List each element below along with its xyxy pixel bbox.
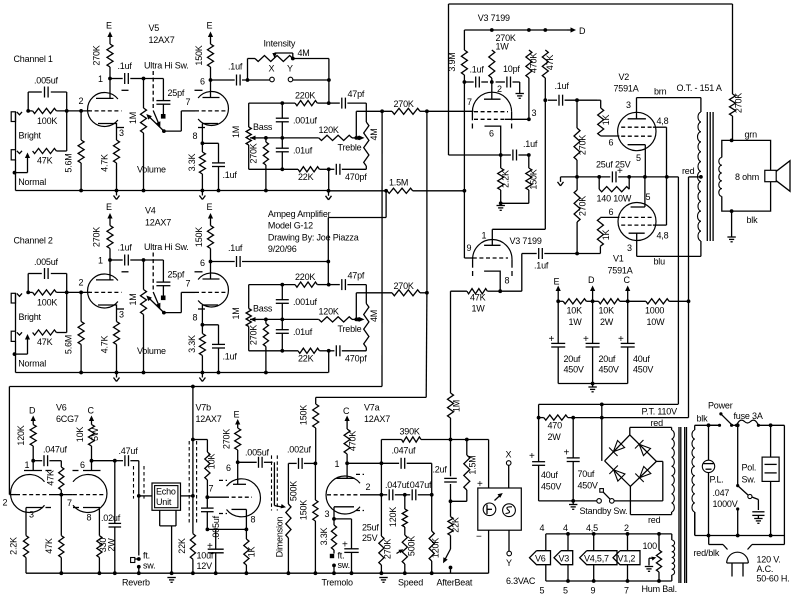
label grn [745,130,758,140]
svg-text:25uf 25V: 25uf 25V [596,160,631,170]
wire fb row 155 [449,154,501,156]
svg-text:1W: 1W [472,304,486,314]
label pin 5 V6 [540,586,545,595]
junction V7b cath row right [245,528,249,532]
triode V6a [11,475,45,513]
label 4,8 V2 [657,116,669,126]
label 6.3VAC [506,576,536,586]
junction ch1 bus .1uf [217,189,221,193]
junction ch1 grid node [79,109,83,113]
svg-text:470: 470 [548,421,563,431]
label 120 V. [757,555,781,565]
bass wiper ch1 [250,136,266,141]
svg-text:.1uf: .1uf [534,261,549,271]
junction mid 270K ch2 [264,318,268,322]
label Ultra Hi Sw. ch2 [144,242,189,252]
svg-text:270K: 270K [578,196,588,216]
capacitor .047uf osc3 [412,489,416,500]
ground ch2 3.3K [199,373,205,382]
svg-text:2W: 2W [548,432,562,442]
junction bus dimension [287,571,291,575]
junction cathode V3b [498,289,502,293]
capacitor 25uf 25V [612,171,616,182]
tube V6a gap dashes [46,471,52,508]
capacitor 47pf ch1 [329,98,367,109]
svg-text:grn: grn [745,130,758,140]
cathode V7b [232,509,247,529]
wire primary top [695,424,720,426]
label 20uf 450V E [564,354,584,375]
filter cap box [762,425,779,535]
resistor 150K trem lower [313,463,318,573]
label P.T. 110V [642,407,678,417]
svg-text:4,8: 4,8 [657,231,669,241]
junction bus 330 [98,571,102,575]
label .1uf ch1 cathode [223,170,238,180]
ground ch1 4.7K [114,191,120,200]
supply C arrow [624,275,631,301]
label pin 4 V3 [563,523,568,533]
resistor 47K V6b grid [59,495,64,574]
svg-text:Volume: Volume [137,346,166,356]
label 150K V4b [194,227,204,247]
junction supply gnd [591,382,595,386]
junction ch1 bus 4.7K [115,189,119,193]
pin 2 label V6a [3,498,8,508]
svg-text:C: C [624,275,631,285]
label 25uf 25V [596,160,631,170]
svg-text:V6: V6 [535,554,546,564]
PT 6.3V winding [672,534,675,581]
junction ch2 bus 270K [264,371,268,375]
echo unit box [152,483,181,510]
triode V7b [227,479,261,517]
svg-text:470K: 470K [529,53,539,73]
junction mid 120K right ch2 [354,318,358,322]
tube V3a bottom dashes [472,124,511,129]
label 10uf [197,551,214,561]
junction 470 left [537,416,541,420]
svg-text:140 10W: 140 10W [597,194,632,204]
svg-text:1K: 1K [601,114,611,125]
svg-text:.047uf: .047uf [392,446,417,456]
treble wiper ch1 [359,136,365,141]
junction ch2 bus 4.7K [115,371,119,375]
wire psu gnd row [539,500,597,502]
wire jack drop [488,440,490,489]
label 270K ch2 mix [394,281,414,291]
junction tone top right ch1 [327,101,331,105]
wire ch2 47K right [56,292,66,332]
wire wiper to grid ch1 [164,111,181,131]
label 47K ch1 input [37,156,53,166]
OT core [707,112,713,241]
svg-text:Reverb: Reverb [122,578,150,588]
junction B+ lower bridge [600,416,604,420]
resistor 5.6M ch2 [78,292,84,372]
capacitor 25pf ch2 [156,260,170,296]
resistor 270K ch2 mix [356,290,427,320]
label 25uf V7a [362,523,379,533]
label 4M ch1 [369,128,379,140]
svg-text:70uf: 70uf [578,469,595,479]
ground ch1 3.3K [199,191,205,200]
treble wiper ch2 [359,317,365,322]
svg-text:X: X [269,64,275,74]
pin 7 label V4b [186,279,191,289]
label 47K V6b grid [44,538,54,554]
capacitor 25uf 25V V7a [334,519,359,573]
resistor 1.5M [387,188,413,193]
label 10K V7b [207,454,217,470]
label 5.6M ch1 [64,153,74,172]
wire tone top row ch2 [249,284,329,286]
junction bus D 47K [543,28,547,32]
pin 7 label V6b [67,498,72,508]
svg-text:100K: 100K [37,116,57,126]
label Tremolo [322,578,353,588]
cathode V1 [631,177,645,207]
svg-text:270K: 270K [578,135,588,155]
resistor 3.3K ch1 [199,143,205,190]
OT primary [698,98,701,257]
junction 1.5M bus [327,189,331,193]
svg-text:+: + [477,479,483,490]
svg-text:8 ohm: 8 ohm [735,172,759,182]
label 470pf ch1 [345,172,367,182]
ground supply [588,384,596,392]
resistor 2.2K V6a [23,536,28,574]
label V4 [145,206,156,216]
label 7591A V1 [608,266,633,276]
svg-text:270K: 270K [394,281,414,291]
resistor 120K osc [402,495,407,527]
junction ch2 bus 5.6M [79,371,83,375]
rail 120K afterbeat [429,495,434,573]
wire tone gnd drop ch1 [328,169,330,190]
junction bus .02uf [113,571,117,575]
resistor 100K ch1 [33,108,57,113]
pin 5 label V1 [646,192,651,202]
svg-text:.047uf: .047uf [385,480,410,490]
svg-text:1M: 1M [452,400,462,412]
svg-text:blk: blk [697,414,709,424]
label 4.7K ch1 [100,154,110,172]
pin 3 label V2 [626,100,631,110]
wire tone bottom row ch1 [249,168,367,170]
svg-text:12AX7: 12AX7 [149,35,175,45]
wire tone mid row ch1 [266,137,319,139]
label plus V7a cap [342,540,348,551]
svg-text:3.3K: 3.3K [187,153,197,171]
svg-text:1W: 1W [569,317,583,327]
svg-text:47pf: 47pf [348,89,365,99]
svg-text:22K: 22K [451,517,461,533]
pin 6 label V2 [609,138,614,148]
ground echo [167,578,175,583]
label 1M volume ch2 [128,293,138,305]
svg-text:red/blk: red/blk [694,548,720,558]
screen V3a [474,118,529,120]
wire tone gnd drop ch2 [328,351,330,373]
capacitor .005uf ch1 [45,87,49,98]
label 9/20/96 [268,244,297,254]
svg-text:AfterBeat: AfterBeat [437,578,473,588]
label plus C cap [618,334,624,345]
capacitor .1uf V3a out [501,150,529,161]
pin 6 label V5b [200,77,205,87]
label X intensity [269,64,275,74]
pin 8 label V4b [193,313,198,323]
jack Y lower [506,551,512,568]
pin 5 label V2 [636,153,641,163]
label 10K 1W [567,306,583,328]
label 7591A V2 [614,84,639,94]
wire B to 150K [316,396,427,398]
label Volume ch2 [137,346,166,356]
svg-text:+: + [342,540,348,551]
svg-text:Standby Sw.: Standby Sw. [580,506,628,516]
switch Ultra Hi dashed ch2 [152,253,154,292]
svg-text:.001uf: .001uf [293,297,318,307]
junction supply E [556,299,560,303]
label 100K ch2 [37,297,57,307]
svg-text:A.C.: A.C. [757,564,774,574]
svg-text:.002uf: .002uf [287,445,312,455]
junction 1.5M right rail [463,189,467,193]
plate bar V2 [628,118,646,120]
junction tone top right ch2 [327,283,331,287]
label 3.3K ch2 [187,335,197,353]
svg-text:22K: 22K [298,172,314,182]
label 150K V5b [194,45,204,65]
label 25pf ch1 [168,88,185,98]
svg-text:47K: 47K [37,156,53,166]
rail V7b feed [192,387,194,534]
capacitor .1uf to V2 [555,81,570,106]
svg-text:1M: 1M [231,126,241,138]
wire tone mid row ch2 [266,318,319,320]
resistor 47K V3 [542,50,548,100]
label 47K V3 [545,55,555,71]
label 100K ch1 [37,116,57,126]
label Dimension [275,516,285,557]
label 270K V5a [92,45,102,65]
label E V5a [106,21,112,31]
svg-text:3: 3 [626,100,631,110]
plate bar V1 [629,232,645,234]
svg-text:Power: Power [708,401,733,411]
label 120K ch2 [319,306,339,316]
grid V3a dashed [474,111,508,113]
capacitor .47uf [115,455,139,466]
svg-text:blu: blu [654,257,666,267]
wire supply gnd bus [558,383,628,385]
capacitor 70uf 450V [567,418,580,501]
svg-text:sw.: sw. [143,561,155,571]
svg-text:10K: 10K [207,454,217,470]
label 47pf ch1 [348,89,365,99]
svg-text:2.2K: 2.2K [501,170,511,188]
junction bus 1K V7b [245,571,249,575]
svg-text:.1uf: .1uf [118,61,133,71]
label E V4a [106,202,112,212]
svg-text:120K: 120K [319,125,339,135]
label pin 9 [591,586,596,595]
junction ch2 bus .1uf [217,371,221,375]
svg-text:6.3VAC: 6.3VAC [506,576,536,586]
svg-text:Ultra Hi Sw.: Ultra Hi Sw. [144,61,189,71]
svg-text:5: 5 [540,586,545,595]
label 470 2W [548,421,563,443]
label plus jack [477,479,483,490]
label .005uf ch2 [34,257,59,267]
label 47K ch2 input [37,337,53,347]
svg-text:120K: 120K [319,306,339,316]
switch Standby [597,489,614,504]
junction 3.9M bottom [463,80,467,84]
svg-text:2: 2 [79,278,84,288]
label 25V V7a [362,533,378,543]
label E V5b [207,21,213,31]
label pin 5 V3 [563,586,568,595]
svg-text:Y: Y [506,558,512,568]
fuse 3A [735,420,785,427]
svg-text:E: E [106,202,112,212]
svg-text:+: + [529,451,535,462]
junction blk [730,209,734,213]
tube V3b bottom dashes [473,271,512,276]
svg-text:47K: 47K [545,55,555,71]
svg-text:100K: 100K [37,297,57,307]
resistor 1K V7b [244,529,249,573]
triode V3b [473,240,512,268]
resistor 10K 5W V6b plate [89,425,95,461]
triode V5a [88,92,118,126]
wire B+ row lower [539,417,689,419]
label Intensity [264,39,296,49]
label 4M ch2 [369,310,379,322]
label 10pf [503,64,520,74]
junction ch1 normal [13,171,17,175]
svg-text:V4: V4 [145,206,156,216]
junction ch2 bus volume [142,371,146,375]
label 2.2K V6a [9,537,19,555]
supply E arrow V5a [107,32,112,45]
label .1uf ch2 cathode [223,352,238,362]
junction .002uf right [314,462,318,466]
ground arrow cathode row [558,177,564,186]
svg-text:47K: 47K [44,538,54,554]
OT secondary [719,157,722,196]
rail V3b grid [463,82,465,258]
label 470K V3 [529,53,539,73]
label Ampeg Amplifier [268,209,331,219]
ground 1.5M bus [326,191,332,200]
svg-text:8: 8 [193,131,198,141]
label Bright ch2 [19,312,42,322]
switch Pol Sw [736,423,752,535]
capacitor 470pf ch2 [336,345,340,356]
label Reverb [122,578,150,588]
pin 6 label V4b [200,258,205,268]
svg-text:270K: 270K [383,539,393,559]
resistor 270K V2 [574,100,580,177]
svg-text:1: 1 [98,74,103,84]
supply D arrow [588,275,595,301]
label 100 humbal [643,541,658,551]
svg-text:3: 3 [119,310,124,320]
svg-text:E: E [207,202,213,212]
pin 1 label V7a [335,459,340,469]
shield echo send [134,466,145,499]
label V3 7199 top [478,13,510,23]
svg-text:450V: 450V [599,365,619,375]
plate V5b [203,80,220,98]
junction .2uf bottom [449,499,453,503]
label 140 10W [597,194,632,204]
resistor 470K V3 [526,50,532,119]
label Normal ch1 [18,177,46,187]
svg-text:47K: 47K [46,470,56,486]
svg-text:Dimension: Dimension [275,516,285,557]
svg-text:7591A: 7591A [608,266,633,276]
wire V7a grid drop [380,463,382,495]
svg-text:5: 5 [563,586,568,595]
resistor 150K V3 [501,155,532,203]
svg-text:.1uf: .1uf [223,352,238,362]
capacitor .1uf ch1 coupling B [237,75,241,86]
capacitor .005uf V7b out [238,457,273,468]
label Treble ch2 [338,324,362,334]
wire mains right rail [783,425,785,544]
capacitor .01uf ch1 [276,138,289,169]
svg-text:270K: 270K [249,143,259,163]
grid V6b dashed [73,494,104,496]
plate V4b [203,262,220,280]
svg-text:4.7K: 4.7K [100,154,110,172]
svg-text:6: 6 [489,129,494,139]
label .1uf V3a out [523,139,538,149]
cathode V2 [628,145,646,177]
grid V5b [181,110,228,112]
svg-text:7: 7 [624,586,629,595]
svg-text:220K: 220K [295,91,315,101]
svg-text:V1: V1 [613,254,624,264]
resistor 3.9M [461,30,467,82]
wire X to box [508,465,510,488]
tube V1 [618,203,656,241]
wire V7a plate row [347,462,432,464]
svg-text:4: 4 [563,523,568,533]
label Echo [156,487,176,497]
plate bar V6a [24,461,42,471]
junction plate node V5a [108,77,112,81]
junction intensity left [246,78,250,82]
volume wiper ch2 [146,296,164,313]
svg-text:25uf: 25uf [362,523,379,533]
screen V2 dashed [621,127,666,177]
capacitor .001uf ch1 [276,103,289,138]
label Standby Sw. [580,506,628,516]
svg-text:150K: 150K [299,500,309,520]
junction plate node V4a [108,258,112,262]
junction supply rail [687,299,691,303]
svg-text:6: 6 [80,460,85,470]
svg-text:9/20/96: 9/20/96 [268,244,297,254]
label brn [654,87,667,97]
AC plug [727,552,749,576]
